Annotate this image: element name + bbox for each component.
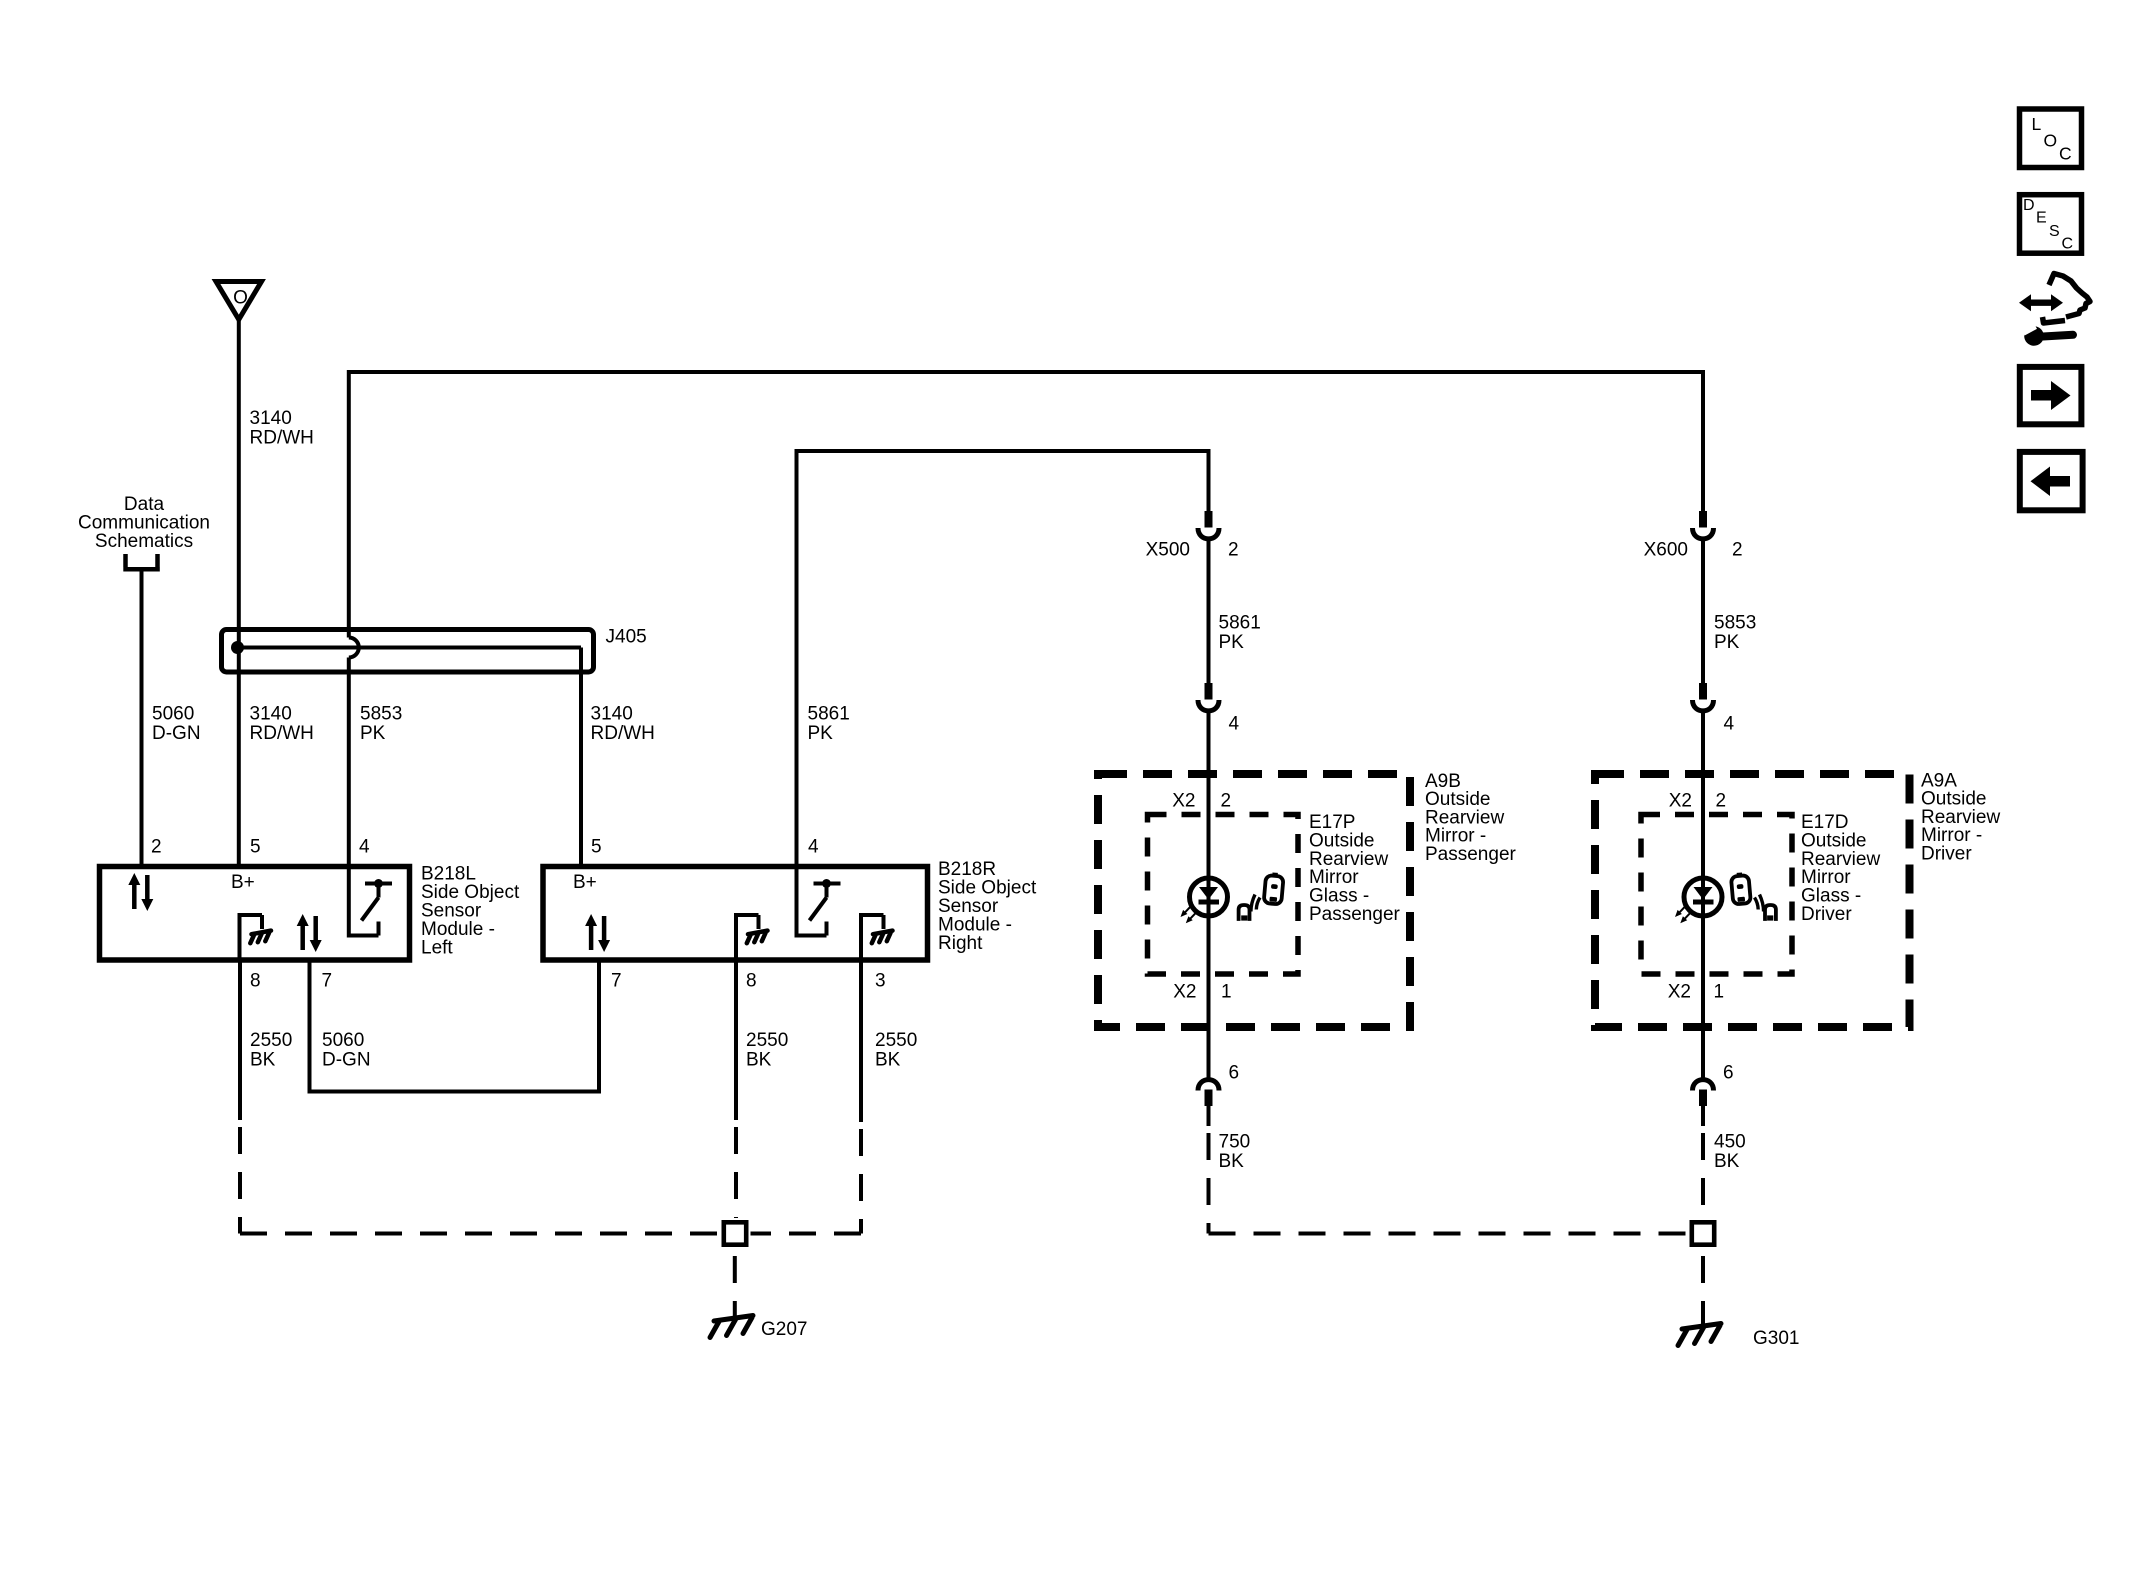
B218R internal ground symbol (pin 8) [736,915,768,960]
svg-text:X500: X500 [1146,540,1190,561]
svg-text:2: 2 [151,837,162,858]
svg-text:2: 2 [1221,791,1232,812]
svg-text:4: 4 [808,837,819,858]
blind zone alert icon (passenger) [1239,872,1284,921]
svg-text:450: 450 [1714,1132,1746,1153]
next page arrow button [2020,367,2082,424]
svg-text:B+: B+ [231,872,255,893]
label A9A Outside Rearview Mirror - Driver [1921,771,2000,865]
svg-text:Left: Left [421,938,453,959]
previous page arrow button [2020,452,2083,510]
wire 5060 D-GN from bracket to B218L pin 2 [140,569,144,866]
wire 2550 BK from B218R pin 3 down to G207 junction [859,960,863,1122]
svg-text:B+: B+ [573,872,597,893]
svg-text:5: 5 [591,837,602,858]
svg-text:X600: X600 [1644,540,1688,561]
label B218L Side Object Sensor Module - Left [421,864,520,959]
svg-text:Right: Right [938,933,983,954]
svg-text:3140: 3140 [250,408,292,429]
svg-text:PK: PK [1219,632,1245,653]
svg-text:7: 7 [322,971,333,992]
svg-text:O: O [233,288,248,309]
power symbol O (battery feed triangle) [216,282,262,320]
B218L serial-data double arrow (pin 2) [128,873,153,911]
wire 450 BK from driver mirror pin 6 to G301 junction [1701,1106,1705,1126]
svg-text:BK: BK [746,1050,772,1071]
svg-text:5: 5 [250,837,261,858]
svg-text:5861: 5861 [808,704,850,725]
wire 5861 PK from B218R pin 4 up and over to X500 [797,451,1209,867]
svg-text:5853: 5853 [1714,613,1756,634]
svg-text:1: 1 [1221,982,1232,1003]
LOC navigation button [2020,109,2082,168]
svg-text:L: L [2032,114,2042,134]
connector pin 4 at driver mirror [1693,683,1714,711]
label E17D Outside Rearview Mirror Glass - Driver [1801,812,1880,925]
svg-text:2: 2 [1716,791,1727,812]
svg-text:RD/WH: RD/WH [250,723,314,744]
wire 5853 PK from X600 to mirror connector pin 4 [1701,541,1705,683]
svg-text:5853: 5853 [360,704,402,725]
svg-text:5060: 5060 [152,704,194,725]
connector X500 pin 2 (inline connector symbol) [1198,511,1219,539]
wire through passenger mirror glass LED [1207,713,1211,1078]
svg-text:Passenger: Passenger [1309,904,1401,925]
svg-text:3: 3 [875,971,886,992]
svg-text:750: 750 [1219,1132,1251,1153]
svg-text:5060: 5060 [322,1030,364,1051]
svg-text:2: 2 [1228,540,1239,561]
svg-text:2550: 2550 [250,1030,292,1051]
svg-text:D-GN: D-GN [322,1050,371,1071]
svg-text:J405: J405 [606,627,647,648]
off-page reference bracket under Data Communication Schematics [123,554,160,569]
wire through driver mirror glass LED [1701,713,1705,1078]
wire 2550 BK from B218R pin 8 down to G207 junction [734,960,738,1120]
svg-text:4: 4 [1724,714,1735,735]
svg-text:PK: PK [1714,632,1740,653]
wire 750 BK from passenger mirror pin 6 to G301 junction [1207,1106,1211,1126]
svg-text:D: D [2023,197,2035,214]
outer dashed box A9B Outside Rearview Mirror - Passenger [1098,774,1410,1027]
svg-text:RD/WH: RD/WH [250,428,314,449]
svg-text:8: 8 [746,971,757,992]
ground junction block at G301 [1692,1222,1714,1244]
ground G301 [1678,1324,1799,1350]
label B218R Side Object Sensor Module - Right [938,859,1037,954]
svg-text:3140: 3140 [250,704,292,725]
svg-text:4: 4 [1229,714,1240,735]
B218R internal ground symbol (pin 3) [861,915,893,960]
svg-text:7: 7 [611,971,622,992]
svg-text:C: C [2062,236,2074,253]
B218R serial-data double arrow (pin 7) [585,914,610,952]
ground junction block at G207 [724,1222,746,1244]
wire 3140 RD/WH from power symbol down through J405 to B218L pin 5 [237,320,241,867]
svg-text:BK: BK [1714,1151,1740,1172]
dashed wire from junction to G207 ground [733,1247,737,1316]
outer dashed box A9A Outside Rearview Mirror - Driver [1595,774,1910,1027]
module B218L box [100,867,410,961]
svg-text:Driver: Driver [1921,843,1972,864]
label E17P Outside Rearview Mirror Glass - Passenger [1309,812,1401,925]
inner dashed box E17P Outside Rearview Mirror Glass - Passenger [1148,815,1299,975]
B218L internal ground symbol (pin 8) [240,915,272,960]
connector pin 6 at passenger mirror (inverted symbol) [1198,1080,1219,1106]
svg-text:X2: X2 [1669,791,1692,812]
wire hop over J405 bus [349,638,359,658]
svg-text:X2: X2 [1173,982,1196,1003]
svg-text:BK: BK [250,1050,276,1071]
svg-text:Passenger: Passenger [1425,844,1517,865]
junction dot on J405 bus [231,641,244,654]
svg-text:5861: 5861 [1219,613,1261,634]
svg-text:2550: 2550 [746,1030,788,1051]
LED indicator (driver mirror glass) [1675,878,1722,923]
vehicle repair icon (car outline with double arrow and wrench) [2019,274,2090,346]
svg-text:Schematics: Schematics [95,531,193,552]
LED indicator (passenger mirror glass) [1181,878,1228,923]
wire 5861 PK from X500 to mirror connector pin 4 [1207,541,1211,683]
svg-text:C: C [2059,144,2072,164]
wire 5060 D-GN from B218L pin 7 to B218R pin 7 [310,960,600,1092]
svg-text:2550: 2550 [875,1030,917,1051]
inner dashed box E17D Outside Rearview Mirror Glass - Driver [1641,815,1792,975]
svg-text:2: 2 [1732,540,1743,561]
svg-text:X2: X2 [1668,982,1691,1003]
svg-text:BK: BK [875,1050,901,1071]
J405 internal bus wire [238,646,582,650]
wire 5853 PK from B218L pin 4 up over top to X600 (with hop over J405 bus) [349,372,1703,638]
blind zone alert icon (driver, mirrored) [1731,872,1776,921]
svg-text:1: 1 [1714,982,1725,1003]
svg-text:BK: BK [1219,1151,1245,1172]
splice pack J405 [222,627,647,673]
svg-text:D-GN: D-GN [152,723,201,744]
svg-text:6: 6 [1723,1063,1734,1084]
svg-text:4: 4 [359,837,370,858]
svg-text:3140: 3140 [591,704,633,725]
connector X600 pin 2 (inline connector symbol) [1693,511,1714,539]
B218R internal switch (pin 4) [797,867,841,936]
label A9B Outside Rearview Mirror - Passenger [1425,771,1517,865]
svg-text:6: 6 [1229,1063,1240,1084]
wire 3140 RD/WH from J405 bus to B218R pin 5 [579,648,583,867]
svg-text:X2: X2 [1172,791,1195,812]
svg-text:8: 8 [250,971,261,992]
svg-text:Driver: Driver [1801,904,1852,925]
DESC navigation button [2020,195,2082,254]
module B218R box [543,867,928,961]
connector pin 4 at passenger mirror [1198,683,1219,711]
svg-text:PK: PK [360,723,386,744]
label Data Communication Schematics [78,494,210,552]
svg-text:E: E [2036,210,2047,227]
B218L internal switch (pin 4) [362,879,393,936]
svg-text:G207: G207 [761,1319,807,1340]
svg-text:S: S [2049,223,2060,240]
svg-text:O: O [2044,131,2058,151]
ground G207 [710,1316,807,1341]
dashed wire from junction to G301 ground [1701,1247,1705,1324]
connector pin 6 at driver mirror (inverted symbol) [1693,1080,1714,1106]
svg-text:RD/WH: RD/WH [591,723,655,744]
svg-text:PK: PK [808,723,834,744]
wire 2550 BK from B218L pin 8 (solid then dashed) to G207 junction [238,960,242,1120]
B218L serial-data double arrow (pin 7) [297,914,322,952]
svg-text:G301: G301 [1753,1328,1799,1349]
